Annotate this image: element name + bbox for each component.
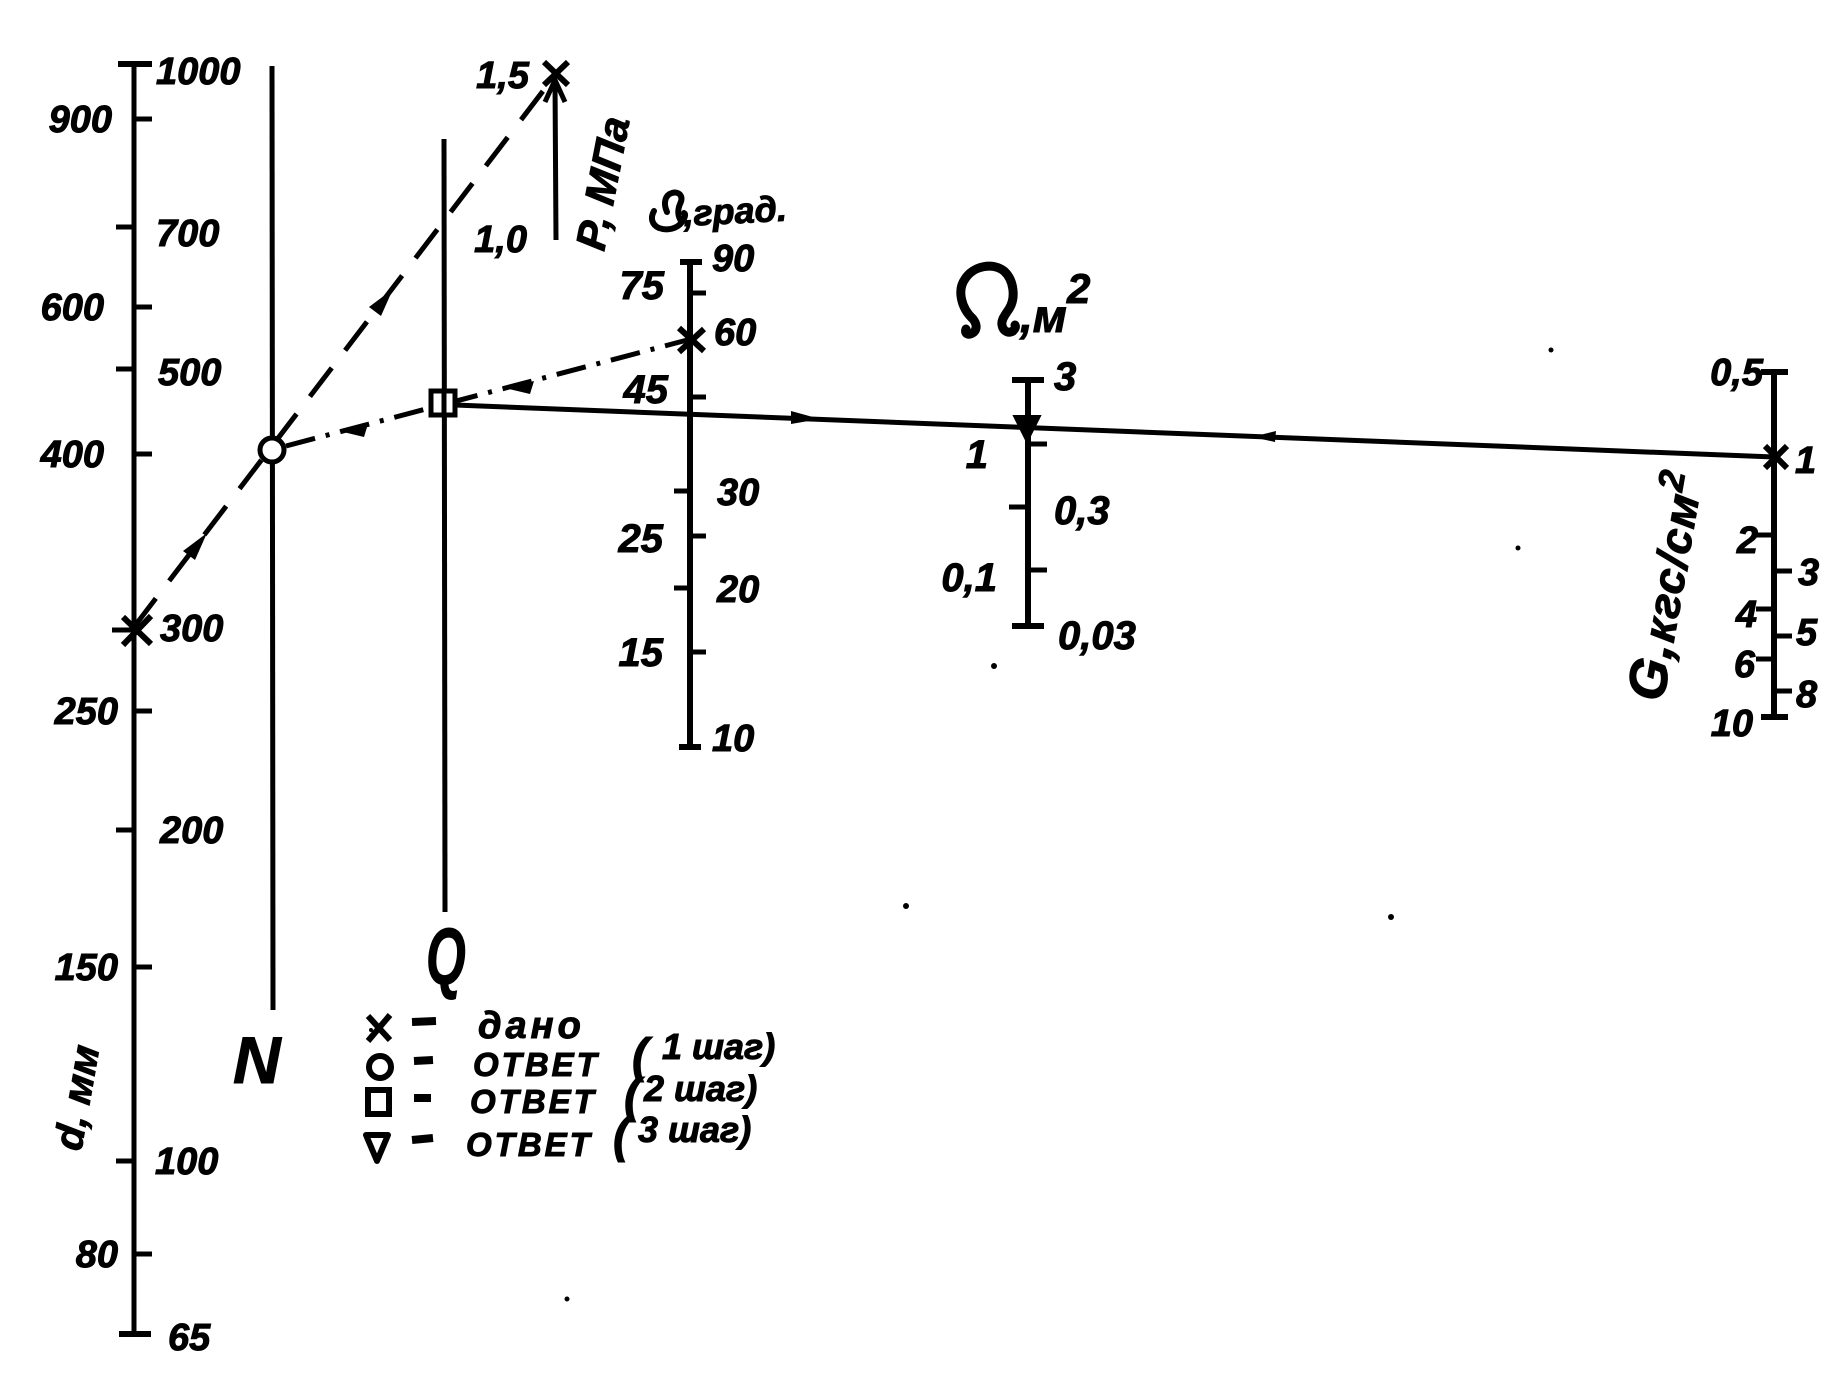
speck dot F: [1516, 546, 1521, 551]
svg-text:2: 2: [1066, 265, 1090, 312]
svg-text:2 шаг): 2 шаг): [643, 1068, 757, 1109]
svg-text:1: 1: [1795, 440, 1816, 482]
legend symbol triangle: [366, 1135, 388, 1161]
mark X given on G scale: [1765, 446, 1787, 468]
legend dash 3: [414, 1094, 431, 1102]
scale P axis line with up arrow: [545, 80, 565, 240]
arrow on line3 left part: [791, 411, 820, 424]
Q line through square: [442, 393, 447, 413]
svg-text:3: 3: [1054, 355, 1076, 399]
alpha labels right: [712, 238, 759, 760]
scale d labels left: [40, 99, 118, 1276]
svg-text:8: 8: [1796, 674, 1818, 716]
svg-text:150: 150: [55, 947, 118, 989]
svg-text:3: 3: [1798, 552, 1819, 594]
svg-text:2: 2: [1736, 520, 1758, 562]
svg-text:5: 5: [1796, 612, 1818, 654]
svg-text:300: 300: [160, 608, 223, 650]
svg-text:ОТВЕТ: ОТВЕТ: [466, 1126, 593, 1163]
svg-text:0,03: 0,03: [1058, 614, 1136, 658]
speck dot A: [903, 903, 909, 909]
svg-text:,м: ,м: [1019, 290, 1067, 342]
svg-text:0,1: 0,1: [941, 556, 997, 600]
scale Q axis line: [444, 139, 445, 912]
svg-text:200: 200: [159, 810, 223, 852]
svg-text:20: 20: [716, 569, 759, 611]
mark X given on P scale: [544, 62, 568, 85]
speck dot E: [1549, 348, 1554, 353]
legend dash 4: [412, 1138, 433, 1140]
legend dash 2: [414, 1060, 433, 1061]
arrow on line1 upper: [369, 289, 393, 316]
arrow on line1 lower: [183, 533, 207, 560]
alpha labels left: [618, 264, 669, 675]
legend symbol square: [368, 1090, 389, 1114]
Omega ticks: [1009, 444, 1047, 570]
speck dot G: [991, 663, 997, 669]
svg-text:80: 80: [76, 1234, 118, 1276]
svg-text:дано: дано: [478, 1005, 585, 1047]
svg-text:65: 65: [168, 1317, 211, 1359]
svg-text:30: 30: [717, 472, 759, 514]
svg-text:10: 10: [1711, 703, 1753, 745]
svg-text:3 шаг): 3 шаг): [638, 1109, 751, 1150]
svg-text:ОТВЕТ: ОТВЕТ: [470, 1083, 597, 1120]
arrow on line3 right part: [1252, 431, 1276, 442]
legend symbol circle: [369, 1056, 391, 1078]
svg-text:0,5: 0,5: [1710, 352, 1764, 394]
arrow on line2 right: [505, 381, 534, 394]
svg-text:900: 900: [49, 99, 112, 141]
G labels right: [1795, 440, 1819, 716]
alignment line 3 solid: Q answer to G=1: [455, 405, 1774, 457]
svg-text:500: 500: [158, 352, 221, 394]
mark answer triangle on Omega scale: [1014, 416, 1040, 442]
scale d labels right: [155, 51, 241, 1359]
legend symbol X: [368, 1015, 390, 1041]
alpha ticks right: [690, 293, 706, 652]
svg-text:1: 1: [966, 433, 988, 477]
scale d,mm axis line: [118, 64, 152, 1334]
arrow on line2 left: [339, 424, 368, 437]
svg-text:6: 6: [1734, 644, 1756, 686]
scale alpha axis line: [679, 262, 702, 747]
speck dot D: [369, 1028, 373, 1032]
alpha ticks left: [674, 491, 690, 588]
svg-text:25: 25: [618, 517, 664, 561]
alignment line 2 dash-dot: N answer to alpha=60: [286, 339, 691, 446]
svg-text:N: N: [233, 1023, 282, 1097]
svg-text:1,0: 1,0: [474, 219, 527, 261]
scale d ticks right side: [134, 119, 152, 1254]
svg-text:90: 90: [712, 238, 754, 280]
svg-text:1000: 1000: [156, 51, 241, 93]
svg-text:Q: Q: [426, 913, 466, 1002]
svg-text:60: 60: [714, 312, 756, 354]
speck dot B: [1388, 914, 1394, 920]
mark answer square on Q scale: [431, 391, 455, 415]
svg-text:1,5: 1,5: [476, 55, 530, 97]
alignment line 1 dashed: d=300 to P=1.5: [134, 74, 556, 627]
svg-text:45: 45: [623, 368, 669, 412]
svg-text:4: 4: [1735, 594, 1757, 636]
svg-text:0,3: 0,3: [1054, 489, 1110, 533]
G ticks right: [1774, 571, 1792, 691]
svg-text:,град.: ,град.: [681, 188, 787, 234]
speck dot C: [565, 1297, 570, 1302]
mark answer circle on N scale: [260, 438, 284, 462]
Omega axis title: [961, 266, 1016, 334]
svg-text:ОТВЕТ: ОТВЕТ: [473, 1046, 600, 1083]
svg-text:600: 600: [41, 287, 104, 329]
scale Omega axis line: [1012, 380, 1044, 626]
G ticks left: [1756, 535, 1774, 659]
scale G axis line: [1761, 372, 1788, 717]
mark X given on d scale: [123, 616, 151, 645]
svg-text:250: 250: [54, 691, 118, 733]
svg-text:400: 400: [40, 434, 104, 476]
svg-text:75: 75: [620, 264, 665, 308]
scale N axis line: [272, 66, 273, 1010]
legend dash 1: [412, 1021, 436, 1022]
alpha axis title glyph + text: [652, 193, 685, 230]
svg-text:100: 100: [155, 1141, 218, 1183]
svg-text:10: 10: [712, 718, 754, 760]
G labels left: [1710, 352, 1764, 745]
svg-text:15: 15: [619, 631, 664, 675]
svg-text:700: 700: [156, 213, 219, 255]
svg-text:1 шаг): 1 шаг): [662, 1026, 775, 1067]
scale d ticks left side: [112, 227, 134, 1161]
mark X given on alpha scale: [679, 328, 704, 352]
